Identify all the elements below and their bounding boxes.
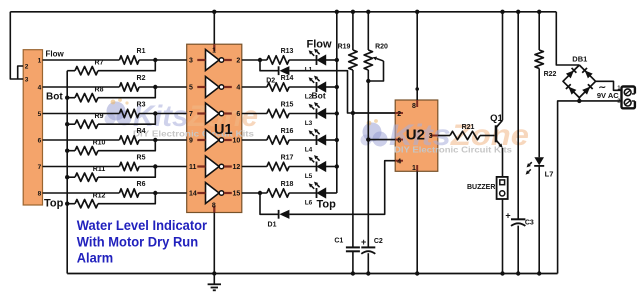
wire R10 branch xyxy=(67,140,155,151)
label R3 xyxy=(137,101,146,108)
wire D2 branch xyxy=(260,60,395,113)
node U1 pin1 on top rail xyxy=(212,10,216,14)
wire U2 pin2 xyxy=(353,112,395,114)
svg-text:9V AC: 9V AC xyxy=(597,91,619,100)
svg-text:D1: D1 xyxy=(268,222,277,229)
label C1 xyxy=(334,238,343,245)
node D1 tap row 6 xyxy=(258,191,262,195)
svg-text:1: 1 xyxy=(38,57,42,64)
svg-text:With Motor Dry Run: With Motor Dry Run xyxy=(77,234,198,250)
node row 5 junction xyxy=(153,164,157,168)
connector pin numbers xyxy=(25,57,42,197)
node row 1 junction xyxy=(153,58,157,62)
wire R9 branch xyxy=(67,114,155,125)
resistor R8 xyxy=(75,94,98,102)
resistor R12 xyxy=(75,200,98,208)
svg-text:6: 6 xyxy=(38,137,42,144)
wire Q1 emitter to buzzer xyxy=(502,148,504,177)
watermark KitsZone logo left xyxy=(105,98,259,138)
svg-text:R3: R3 xyxy=(137,101,146,108)
label R18 xyxy=(281,181,294,188)
label DB1 xyxy=(572,55,587,64)
wire U1 output row 3 xyxy=(242,113,337,115)
svg-text:C2: C2 xyxy=(374,238,383,245)
U1 pin 1 top supply wire xyxy=(212,12,216,55)
label R7 xyxy=(95,60,104,67)
svg-text:C3: C3 xyxy=(525,219,534,226)
wire row 6 from connector pin 8 xyxy=(43,192,187,194)
label D2 xyxy=(266,78,275,85)
connector pin label Top (left) xyxy=(44,198,64,210)
LED L2 xyxy=(309,76,326,92)
label Bot (LED L2) xyxy=(312,90,326,100)
resistor R4 xyxy=(119,136,139,144)
resistor R10 xyxy=(75,147,98,155)
resistor R2 xyxy=(119,83,139,91)
wire LED anode rail xyxy=(336,12,338,193)
label 9V AC xyxy=(597,82,619,100)
capacitor C3 xyxy=(511,219,525,226)
label R11 xyxy=(93,166,106,173)
label L6 xyxy=(305,199,313,206)
svg-text:7: 7 xyxy=(189,111,193,118)
capacitor C2 xyxy=(361,247,375,253)
svg-text:R10: R10 xyxy=(93,140,106,147)
U1 buffer 6 (pins 14-15) xyxy=(189,183,240,204)
svg-text:6: 6 xyxy=(397,137,401,144)
node R20 bottom rail xyxy=(366,271,370,275)
label R4 xyxy=(137,128,146,135)
svg-text:2: 2 xyxy=(236,58,240,65)
label C3 plus xyxy=(505,210,510,220)
U2 pin stubs xyxy=(395,100,438,171)
wire U1 output row 1 xyxy=(242,59,337,61)
svg-text:R22: R22 xyxy=(544,71,557,78)
resistor R20 (preset) xyxy=(364,50,372,70)
svg-text:R20: R20 xyxy=(375,44,388,51)
svg-text:4: 4 xyxy=(397,159,401,166)
wire Q1 collector xyxy=(502,12,504,120)
label D1 xyxy=(268,222,277,229)
wire top rail to bridge xyxy=(556,12,579,65)
svg-text:DB1: DB1 xyxy=(572,55,587,64)
svg-text:DIY Electronic Circuit Kits: DIY Electronic Circuit Kits xyxy=(394,146,513,155)
svg-text:R15: R15 xyxy=(281,102,294,109)
connector 9V AC body xyxy=(622,87,637,109)
label R22 xyxy=(544,71,557,78)
label R12 xyxy=(93,193,106,200)
node D2 tap row 1 xyxy=(258,58,262,62)
svg-text:14: 14 xyxy=(189,191,197,198)
label R1 xyxy=(137,48,146,55)
LED L6 xyxy=(309,182,326,198)
resistor R14 xyxy=(267,83,289,91)
label L5 xyxy=(305,173,313,180)
svg-text:R16: R16 xyxy=(281,128,294,135)
wire D1 branch xyxy=(260,161,395,215)
label L2 xyxy=(305,93,313,100)
svg-text:6: 6 xyxy=(236,111,240,118)
LED L4 xyxy=(309,129,326,145)
svg-text:R19: R19 xyxy=(338,44,351,51)
wire bridge minus / connector pin2 to ground xyxy=(558,98,622,274)
U1 buffer 3 (pins 7-6) xyxy=(189,103,240,124)
resistor R19 xyxy=(349,50,357,70)
svg-text:2: 2 xyxy=(25,63,29,70)
svg-text:15: 15 xyxy=(233,191,241,198)
node row 2 junction xyxy=(153,85,157,89)
svg-text:R5: R5 xyxy=(137,154,146,161)
label R5 xyxy=(137,154,146,161)
node LED anode rail junctions xyxy=(335,58,339,169)
node U2 pin8 top rail xyxy=(415,10,419,14)
wire U1 output row 4 xyxy=(242,139,337,141)
label Q1 xyxy=(490,113,503,124)
svg-text:3: 3 xyxy=(429,133,433,140)
diode D1 xyxy=(279,210,290,219)
svg-text:8: 8 xyxy=(38,190,42,197)
connector pin label Flow (left) xyxy=(46,49,65,58)
transistor Q1 xyxy=(496,120,503,148)
svg-text:1: 1 xyxy=(412,165,416,172)
svg-text:Flow: Flow xyxy=(46,49,65,58)
svg-text:R11: R11 xyxy=(93,166,106,173)
wire connector pin 2 tie bracket xyxy=(18,66,24,79)
wire R20 branch xyxy=(367,12,369,274)
node R20 top rail xyxy=(366,10,370,14)
svg-text:L7: L7 xyxy=(545,169,554,178)
svg-text:L6: L6 xyxy=(305,199,313,206)
label R17 xyxy=(281,155,294,162)
resistor R18 xyxy=(267,189,289,197)
svg-text:12: 12 xyxy=(233,164,241,171)
node bus taps xyxy=(65,96,69,206)
resistor R3 xyxy=(119,109,139,117)
wire U1 output row 2 xyxy=(242,86,337,88)
svg-text:R21: R21 xyxy=(462,124,475,131)
wire C3 branch xyxy=(517,12,519,274)
label BUZZER xyxy=(467,184,495,191)
resistor R1 xyxy=(119,56,139,64)
node U1 pin8 on bottom rail xyxy=(212,271,216,275)
wire R8 branch xyxy=(67,87,155,98)
bridge rectifier DB1 xyxy=(563,65,596,98)
svg-text:3: 3 xyxy=(189,58,193,65)
LED L3 xyxy=(309,102,326,118)
wire R11 branch xyxy=(67,167,155,178)
U2 pin 1 wire xyxy=(416,171,418,273)
svg-text:L3: L3 xyxy=(305,120,313,127)
resistor R22 xyxy=(535,50,543,68)
node U2 pin1 bottom rail xyxy=(415,271,419,275)
svg-text:4: 4 xyxy=(38,84,42,91)
resistor R9 xyxy=(75,120,98,128)
label 9V AC pins xyxy=(617,86,620,105)
svg-text:∼: ∼ xyxy=(599,82,607,92)
wire row 1 from connector pin 1 xyxy=(43,59,187,61)
svg-text:R13: R13 xyxy=(281,48,294,55)
svg-text:R2: R2 xyxy=(137,75,146,82)
resistor R5 xyxy=(119,162,139,170)
svg-text:BUZZER: BUZZER xyxy=(467,184,495,191)
svg-text:4: 4 xyxy=(236,85,240,92)
svg-text:+: + xyxy=(361,237,366,247)
svg-text:5: 5 xyxy=(38,111,42,118)
svg-text:8: 8 xyxy=(412,103,416,110)
svg-text:Q1: Q1 xyxy=(490,113,503,124)
svg-text:5: 5 xyxy=(189,85,193,92)
label Top (LED L6) xyxy=(317,199,337,211)
svg-text:U2: U2 xyxy=(406,127,425,144)
wire U2 pin3 to R21 xyxy=(438,135,495,137)
wire U1 output row 6 xyxy=(242,192,337,194)
node row 3 junction xyxy=(153,111,157,115)
svg-text:9: 9 xyxy=(189,138,193,145)
svg-text:U1: U1 xyxy=(214,122,233,138)
label R9 xyxy=(95,113,104,120)
node R20 to U2 pin6 xyxy=(366,137,370,141)
label C2 plus xyxy=(361,237,366,247)
label R20 xyxy=(375,44,388,51)
op-amp U2 body (555 timer IC) xyxy=(395,100,438,171)
wire +V top rail xyxy=(10,11,556,13)
node R22 top rail xyxy=(537,10,541,14)
resistor R6 xyxy=(119,189,139,197)
node Q1 collector top rail xyxy=(500,10,504,14)
LED L7 xyxy=(526,157,545,174)
ground xyxy=(208,274,221,291)
resistor R13 xyxy=(267,56,289,64)
wire row 2 from connector pin 4 xyxy=(43,86,187,88)
label R19 xyxy=(338,44,351,51)
wire row 4 from connector pin 6 xyxy=(43,139,187,141)
label Flow (LED L1) xyxy=(307,39,332,51)
wire R7 branch xyxy=(67,60,155,71)
connector J1 body (8-pin water level probe header) xyxy=(23,50,42,205)
capacitor C1 xyxy=(346,247,360,251)
svg-text:R7: R7 xyxy=(95,60,104,67)
label R16 xyxy=(281,128,294,135)
svg-text:L4: L4 xyxy=(305,146,313,153)
wire bridge AC1 to connector pin1 xyxy=(596,81,622,90)
label R6 xyxy=(137,181,146,188)
resistor R16 xyxy=(267,136,289,144)
wire R19 branch xyxy=(352,12,354,274)
label L4 xyxy=(305,146,313,153)
node R20 wiper tie xyxy=(366,79,370,83)
U2 pin 8 wire xyxy=(415,12,419,100)
node R19 bottom rail xyxy=(351,271,355,275)
svg-text:Top: Top xyxy=(317,199,337,211)
svg-text:2: 2 xyxy=(397,111,401,118)
wire buzzer to ground xyxy=(502,199,504,274)
svg-text:Top: Top xyxy=(44,198,64,210)
diode D2 xyxy=(279,66,290,75)
svg-text:D2: D2 xyxy=(266,78,275,85)
node C3 top rail xyxy=(516,10,520,14)
resistor R15 xyxy=(267,109,289,117)
U1 buffer 2 (pins 5-4) xyxy=(189,77,240,98)
svg-text:Bot: Bot xyxy=(312,90,326,100)
label R8 xyxy=(95,87,104,94)
svg-text:R14: R14 xyxy=(281,75,294,82)
wire row 3 from connector pin 5 xyxy=(43,113,187,115)
svg-text:Water Level Indicator: Water Level Indicator xyxy=(77,218,208,234)
label R2 xyxy=(137,75,146,82)
U2 pin numbers xyxy=(397,103,432,172)
svg-text:Alarm: Alarm xyxy=(77,251,113,267)
buzzer LS1 xyxy=(497,177,508,199)
wire ground bottom rail xyxy=(67,273,557,275)
svg-text:R6: R6 xyxy=(137,181,146,188)
title text xyxy=(77,218,208,267)
resistor R7 xyxy=(75,67,98,75)
label L7 xyxy=(545,169,554,178)
node R19 to U2 pin2 xyxy=(351,111,355,115)
label L1 xyxy=(305,66,313,73)
LED L5 xyxy=(309,155,326,171)
LED L1 xyxy=(309,49,326,65)
wire row 5 from connector pin 7 xyxy=(43,166,187,168)
label R10 xyxy=(93,140,106,147)
svg-text:R4: R4 xyxy=(137,128,146,135)
label U2 xyxy=(406,127,425,144)
svg-text:Flow: Flow xyxy=(307,39,332,51)
wire R12 branch xyxy=(67,193,155,204)
resistor R11 xyxy=(75,173,98,181)
svg-text:R1: R1 xyxy=(137,48,146,55)
resistor R17 xyxy=(267,162,289,170)
svg-text:R18: R18 xyxy=(281,181,294,188)
node row 4 junction xyxy=(153,138,157,142)
label R14 xyxy=(281,75,294,82)
U1 pin 8 ground wire xyxy=(212,202,216,273)
label R13 xyxy=(281,48,294,55)
wire R22 branch xyxy=(538,12,540,274)
node bridge minus junction xyxy=(577,99,581,103)
label R21 xyxy=(462,124,475,131)
svg-text:1: 1 xyxy=(212,47,216,54)
svg-text:C1: C1 xyxy=(334,238,343,245)
label C2 xyxy=(374,238,383,245)
label U1 xyxy=(214,122,233,138)
svg-text:R9: R9 xyxy=(95,113,104,120)
svg-text:3: 3 xyxy=(25,76,29,83)
node buzzer bottom rail xyxy=(500,271,504,275)
svg-text:11: 11 xyxy=(189,164,197,171)
svg-text:Bot: Bot xyxy=(46,92,63,103)
svg-text:R12: R12 xyxy=(93,193,106,200)
wire U2 pin6 xyxy=(368,139,395,141)
op-amp U1 body (hex buffer IC) xyxy=(187,44,242,212)
U1 buffer 5 (pins 11-12) xyxy=(189,156,240,177)
node R22 bottom rail xyxy=(537,271,541,275)
U1 buffer 4 (pins 9-10) xyxy=(189,130,240,151)
wire sensor common bus xyxy=(66,71,68,274)
svg-text:R17: R17 xyxy=(281,155,294,162)
resistor R21 xyxy=(450,131,480,139)
wire top rail left drop to connector pin 3 xyxy=(10,12,23,79)
svg-text:7: 7 xyxy=(38,164,42,171)
svg-text:8: 8 xyxy=(212,202,216,209)
label L3 xyxy=(305,120,313,127)
node row 6 junction xyxy=(153,191,157,195)
R20 wiper xyxy=(368,57,383,81)
svg-text:L5: L5 xyxy=(305,173,313,180)
svg-text:10: 10 xyxy=(233,138,241,145)
label R15 xyxy=(281,102,294,109)
U1 buffer 1 (pins 3-2) xyxy=(189,50,240,71)
watermark KitsZone logo right xyxy=(361,119,530,155)
wire U1 output row 5 xyxy=(242,166,337,168)
node C3 bottom rail xyxy=(516,271,520,275)
connector pin label Bot (left) xyxy=(46,92,63,103)
label C3 xyxy=(525,219,534,226)
svg-text:+: + xyxy=(505,210,510,220)
svg-text:R8: R8 xyxy=(95,87,104,94)
node LED rail on top rail xyxy=(335,10,339,14)
node R19 top rail xyxy=(351,10,355,14)
